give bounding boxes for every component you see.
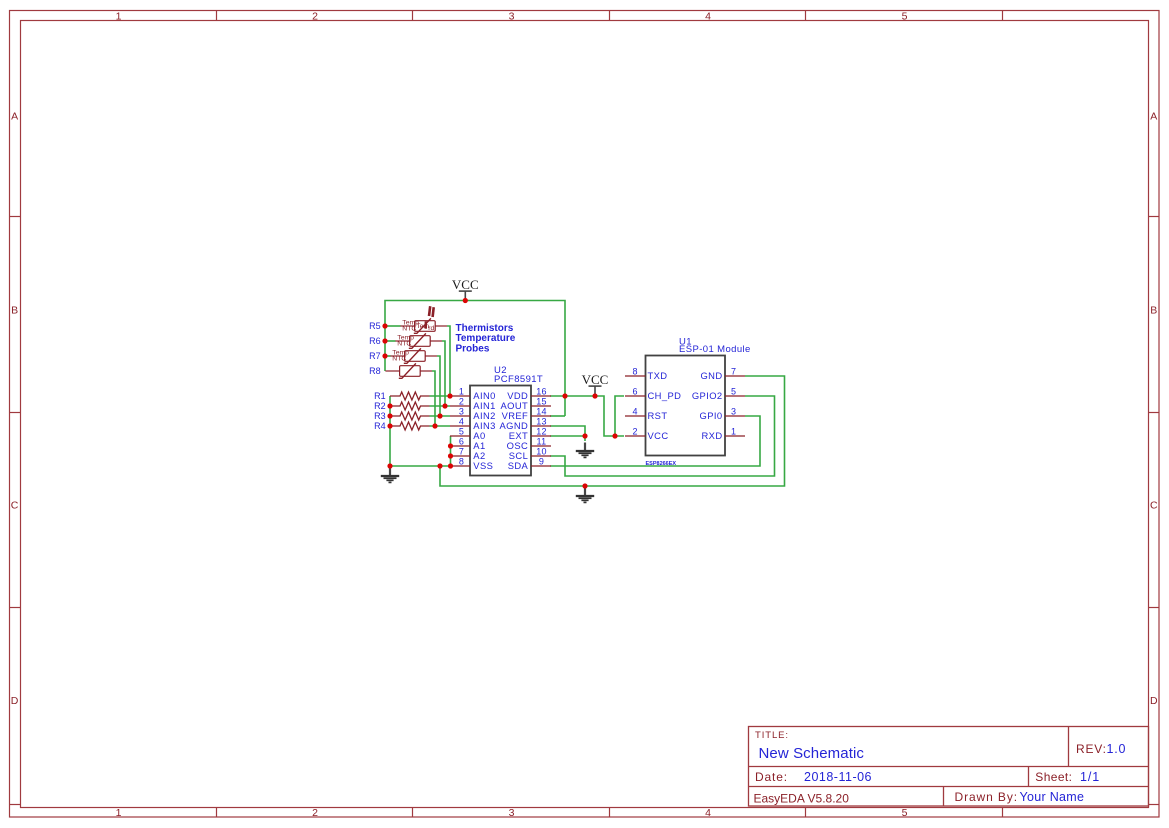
wire R5 left [385,325,401,327]
svg-text:ESP-01 Module: ESP-01 Module [679,344,751,355]
svg-text:8: 8 [459,457,464,467]
svg-text:3: 3 [731,407,736,417]
resistor R1 [390,392,430,400]
wire R6 left [385,340,396,342]
svg-text:ESP8266EX: ESP8266EX [646,461,677,467]
svg-text:Drawn By:: Drawn By: [955,790,1018,804]
ground GND1 [381,468,399,483]
junction at 390,416 [387,413,392,418]
svg-text:NTC: NTC [397,341,411,348]
thermistor overlap marks [426,306,434,329]
svg-text:CH_PD: CH_PD [648,390,682,401]
svg-text:rd: rd [428,325,434,332]
svg-text:C: C [11,500,19,512]
svg-text:4: 4 [705,11,711,23]
pin 6 stub [625,395,646,397]
svg-text:GPI0: GPI0 [700,410,723,421]
wire VDD to VCC [550,396,624,436]
pin 4 stub [450,425,470,427]
pin 7 stub [725,375,745,377]
wire A0 A1 A2 to VSS [450,436,452,466]
svg-text:EasyEDA V5.8.20: EasyEDA V5.8.20 [754,792,850,806]
svg-text:RST: RST [648,410,668,421]
pin 5 stub [725,395,745,397]
junction at 465.3,300.5 [463,298,468,303]
resistor R2 [390,402,430,410]
svg-text:New Schematic: New Schematic [759,745,865,762]
svg-text:R6: R6 [369,336,381,346]
svg-text:7: 7 [731,367,736,377]
svg-text:R8: R8 [369,366,381,376]
svg-text:3: 3 [509,11,515,23]
svg-text:4: 4 [459,417,464,427]
svg-text:7: 7 [459,447,464,457]
svg-text:B: B [1150,305,1157,317]
power symbol VCC1 [459,291,472,300]
wire AIN2 row [430,415,451,417]
svg-text:2: 2 [312,807,318,819]
wire VCC rail [385,301,565,417]
svg-text:1: 1 [116,807,122,819]
pin 12 stub [531,435,551,437]
junction at 450.5,466 [448,463,453,468]
svg-text:R2: R2 [374,401,386,411]
wire R1-R4 ground rail [389,396,391,466]
wire AGND to ground [550,426,585,436]
svg-text:8: 8 [632,367,637,377]
svg-text:D: D [11,695,19,707]
U1 pin numbers [632,367,736,437]
svg-text:PCF8591T: PCF8591T [494,374,543,385]
svg-text:REV:: REV: [1076,742,1107,756]
annotation Thermistors Temperature Probes [456,323,516,354]
svg-text:VCC: VCC [582,372,609,387]
wire SDA to GPI0 [550,416,760,466]
svg-text:5: 5 [459,427,464,437]
wire R5 to AIN0 [447,326,450,396]
svg-text:B: B [11,305,18,317]
svg-text:2: 2 [312,11,318,23]
svg-text:2: 2 [459,397,464,407]
svg-text:VSS: VSS [473,460,493,471]
svg-text:A: A [1150,110,1157,122]
pin 13 stub [531,425,551,427]
svg-text:11: 11 [537,437,547,447]
wire CH_PD to VCC [615,396,624,436]
pin 11 stub [531,445,551,447]
svg-text:NTC: NTC [392,356,406,363]
svg-text:Sheet:: Sheet: [1035,770,1072,784]
wire VSS to U1 GND [440,376,785,486]
svg-text:Your Name: Your Name [1020,790,1085,804]
U1 pin names and reference designator [646,336,751,467]
junction at 615,436 [612,433,617,438]
svg-text:R4: R4 [374,421,386,431]
svg-text:9: 9 [539,457,544,467]
pin 1 stub [450,395,470,397]
svg-text:VCC: VCC [452,277,479,292]
svg-text:NTC: NTC [402,326,416,333]
svg-text:D: D [1150,695,1158,707]
thermistor R7 [390,348,437,363]
svg-text:14: 14 [536,407,547,417]
pin 1 stub [725,435,745,437]
junction at 440,416 [437,413,442,418]
wire VSS row [390,465,451,467]
svg-text:15: 15 [536,397,547,407]
svg-text:1.0: 1.0 [1107,742,1127,756]
svg-text:R7: R7 [369,351,381,361]
svg-text:VCC: VCC [648,430,669,441]
U2 pin numbers 1-8 and 16-9 [459,387,547,467]
junction at 585,436 [582,433,587,438]
svg-text:5: 5 [902,11,908,23]
wire AIN0 row [430,395,451,397]
junction at 450.5,446 [448,443,453,448]
pin 3 stub [725,415,745,417]
svg-text:1: 1 [459,387,464,397]
svg-text:1: 1 [731,427,736,437]
junction at 445,406 [442,403,447,408]
power symbol VCC2 [589,386,602,395]
wire R8 to AIN3 [432,371,435,426]
junction at 390,466 [387,463,392,468]
junction at 390,426 [387,423,392,428]
svg-text:16: 16 [536,387,547,397]
svg-text:4: 4 [632,407,637,417]
wire EXT to ground [550,436,585,441]
pin 3 stub [450,415,470,417]
svg-text:R3: R3 [374,411,386,421]
junction at 565,396 [562,393,567,398]
resistor R4 [390,422,430,430]
svg-text:13: 13 [536,417,547,427]
svg-text:RXD: RXD [702,430,723,441]
svg-text:Date:: Date: [755,770,788,784]
junction at 435,426 [432,423,437,428]
svg-text:6: 6 [632,387,637,397]
thermistor R6 [395,333,442,348]
wire SCL to GPIO2 [550,396,775,476]
wire AIN3 row [430,425,451,427]
junction at 450,396 [447,393,452,398]
junction at 585,486 [582,483,587,488]
wire AIN1 row [430,405,451,407]
resistor R3 [390,412,430,420]
junction at 595,396 [592,393,597,398]
ground GND3 [576,488,594,503]
wire R7 left [385,355,391,357]
junction at 385,326 [382,323,387,328]
junction at 440,466 [437,463,442,468]
svg-text:1: 1 [116,11,122,23]
svg-text:GPIO2: GPIO2 [692,390,723,401]
wire R6 to AIN1 [442,341,445,406]
ground GND2 [576,443,594,458]
pin 7 stub [450,455,470,457]
title block [749,727,1149,807]
pin 2 stub [625,435,646,437]
svg-text:A: A [11,110,18,122]
wire VREF row [550,415,565,417]
svg-text:1/1: 1/1 [1080,770,1100,784]
svg-text:10: 10 [536,447,547,457]
wire R7 to AIN2 [437,356,440,416]
svg-text:TXD: TXD [648,370,668,381]
svg-text:GND: GND [700,370,722,381]
U2 pin names and reference designator [473,365,543,471]
op-amp U1 ESP-01 Module [646,356,726,456]
junction at 450.5,456 [448,453,453,458]
junction at 385,341 [382,338,387,343]
thermistor R5 [400,318,447,333]
pin 6 stub [450,445,470,447]
pin 8 stub [450,465,470,467]
svg-text:2018-11-06: 2018-11-06 [804,770,872,784]
pin 2 stub [450,405,470,407]
svg-text:Probes: Probes [456,343,490,354]
junction at 385,356 [382,353,387,358]
svg-text:3: 3 [459,407,464,417]
svg-text:4: 4 [705,807,711,819]
pin 8 stub [625,375,646,377]
svg-text:5: 5 [902,807,908,819]
svg-text:TITLE:: TITLE: [755,730,789,741]
pin 15 stub [531,405,551,407]
svg-text:3: 3 [509,807,515,819]
op-amp U2 PCF8591T [470,386,531,476]
pin 10 stub [531,455,551,457]
pin 16 stub [531,395,551,397]
pin 9 stub [531,465,551,467]
svg-text:R5: R5 [369,321,381,331]
svg-text:SDA: SDA [508,460,529,471]
svg-text:R1: R1 [374,391,386,401]
pin 4 stub [625,415,646,417]
svg-text:6: 6 [459,437,464,447]
svg-text:C: C [1150,500,1158,512]
thermistor R8 [385,363,432,378]
pin 5 stub [450,435,470,437]
svg-text:2: 2 [632,427,637,437]
svg-text:12: 12 [536,427,547,437]
pin 14 stub [531,415,551,417]
svg-text:5: 5 [731,387,736,397]
junction at 390,406 [387,403,392,408]
